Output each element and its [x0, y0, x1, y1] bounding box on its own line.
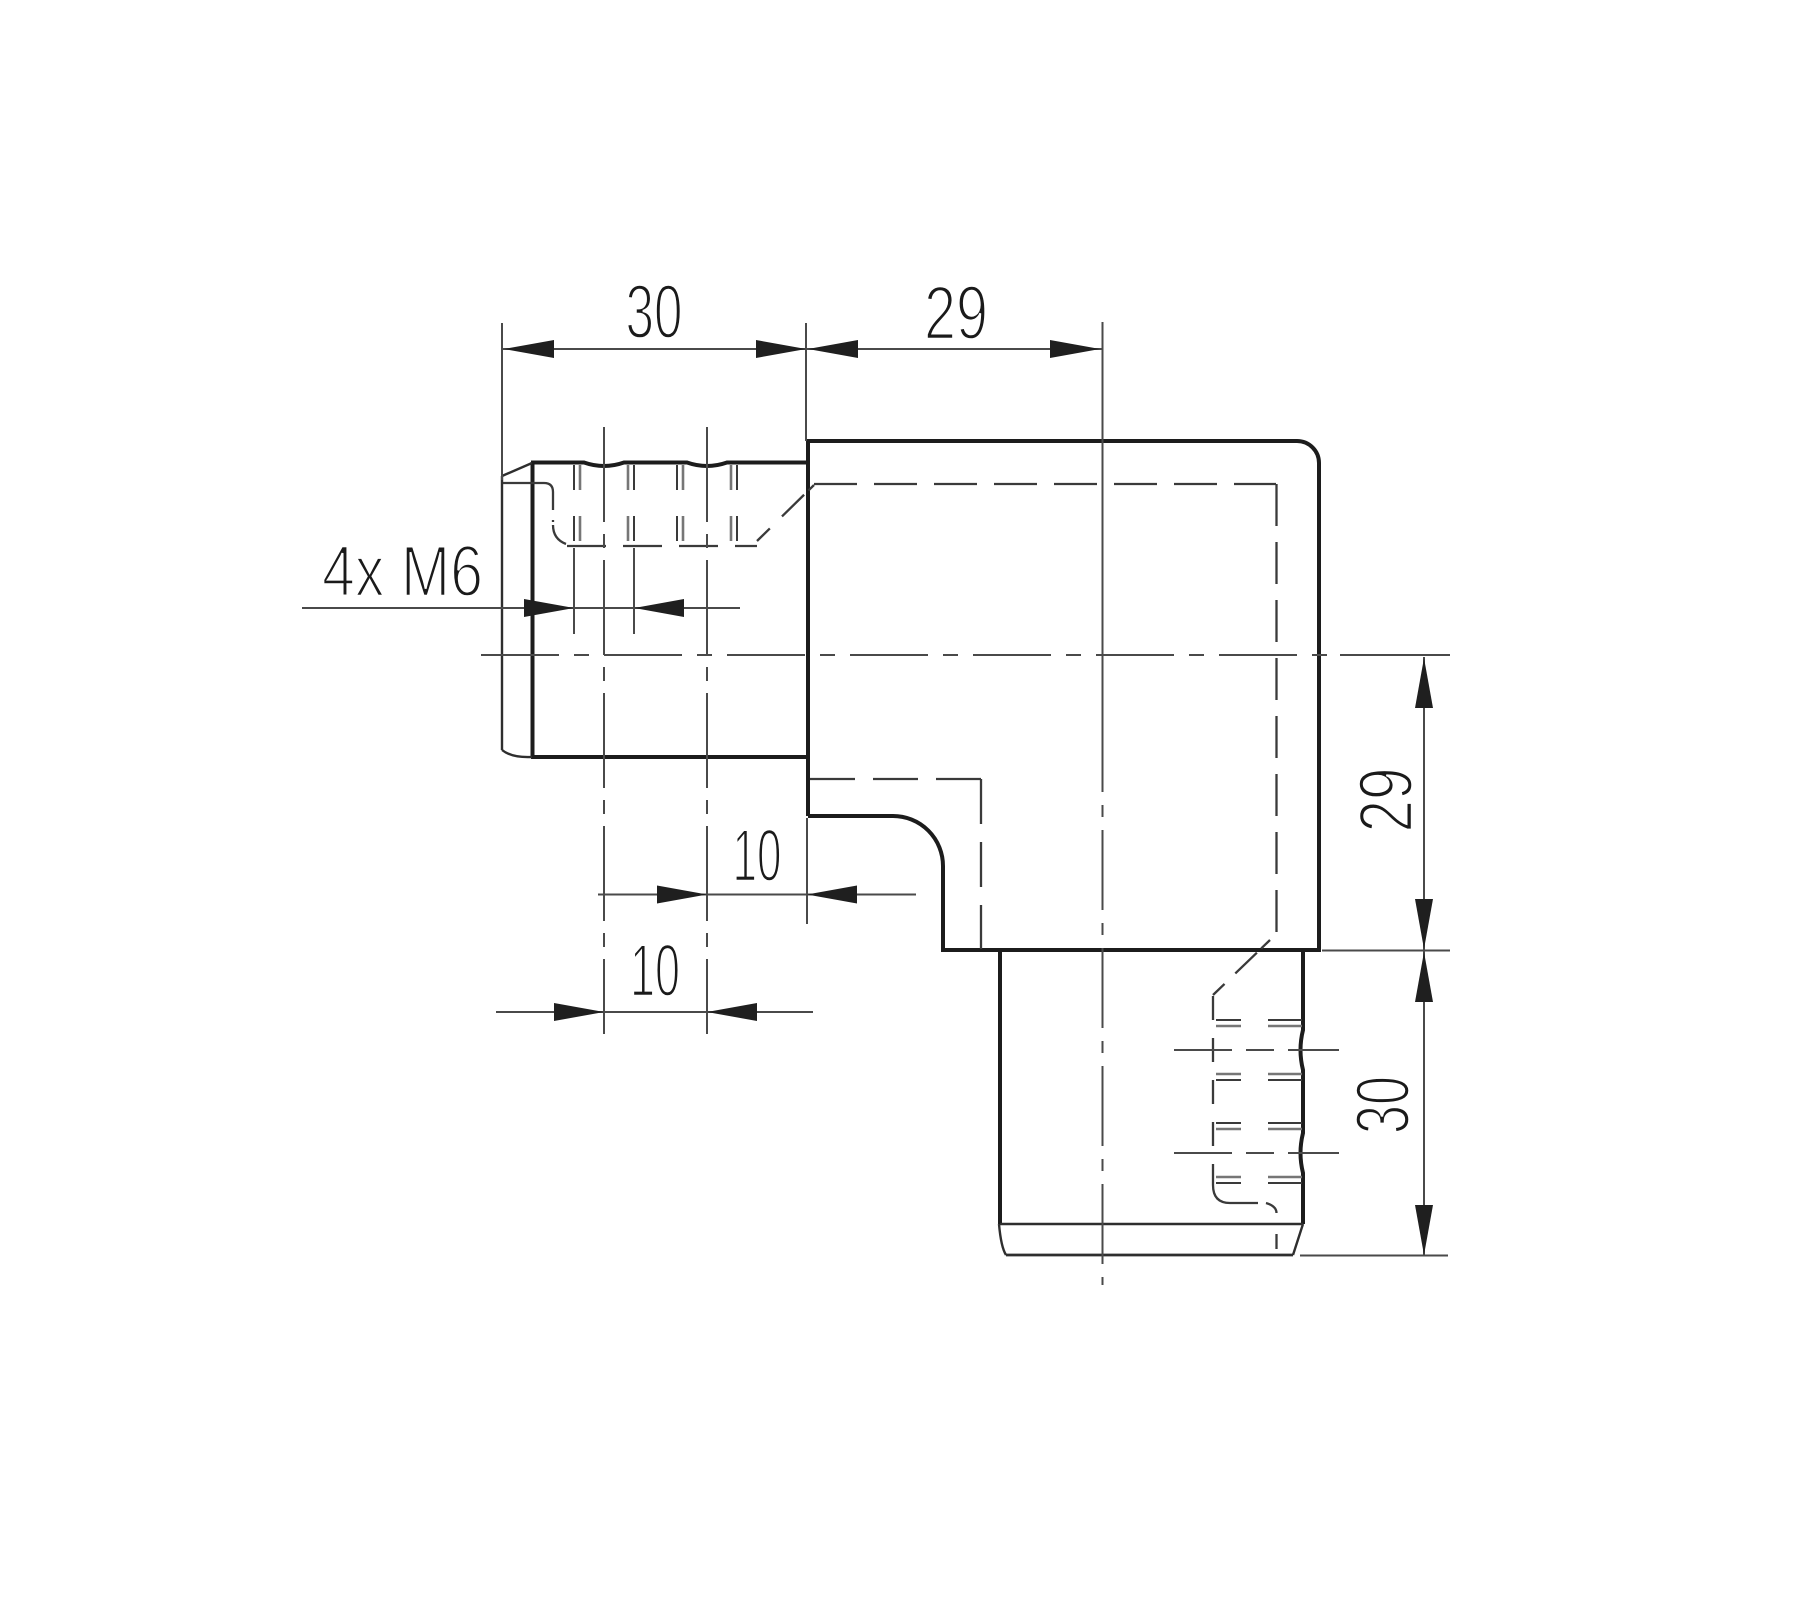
bottom plug right edge with countersink dips: [1301, 950, 1304, 1224]
M6 hole 1 centerline: [603, 427, 605, 1034]
dim 29 right arrows: [1415, 658, 1433, 708]
dim 10 lower arrows: [554, 1003, 604, 1021]
M6 hole 1 minor thread lines: [579, 465, 582, 541]
bottom plug left chamfer: [999, 1224, 1006, 1255]
extension line body left edge (x=806): [805, 323, 807, 441]
M6 hole 2 centerline: [706, 427, 708, 1034]
svg-text:30: 30: [626, 270, 683, 355]
M6 diameter extension line right: [633, 548, 635, 634]
left plug thread runout diagonal to body: [757, 485, 814, 541]
M6 hole 4 major thread lines: [1216, 1122, 1302, 1124]
hidden profile bore right line inside body: [1275, 484, 1277, 937]
hidden step line vertical: [980, 779, 982, 949]
extension line right at plug tip (y=1254): [1300, 1255, 1448, 1257]
left plug top chamfer: [502, 463, 532, 476]
hidden step line horizontal below left plug: [810, 778, 981, 780]
M6 hole 4 centerline: [1174, 1152, 1339, 1154]
corner connector body outline: [808, 441, 1319, 950]
dim 30 arrows: [504, 340, 554, 358]
dim 29 arrows: [808, 340, 858, 358]
M6 diameter arrows: [524, 599, 574, 617]
M6 diameter extension line left: [573, 548, 575, 634]
M6 hole 2 minor thread lines: [682, 465, 685, 541]
M6 hole 1 major thread lines: [573, 465, 575, 541]
left plug chamfered end face: [501, 476, 503, 750]
dimension line 29/30 right: [1423, 657, 1425, 1255]
extension line left (x=502): [501, 323, 503, 480]
dimension line 30/29 top: [502, 348, 1102, 350]
bottom plug thread runout hook: curve: [1213, 1185, 1230, 1203]
left plug bottom edge: [531, 755, 808, 759]
dim 10 upper arrows: [657, 886, 707, 904]
bottom plug thread runout hook: horizontal dashed: [1230, 1202, 1266, 1204]
left plug top edge with countersink dips: [531, 463, 808, 467]
M6 hole 3 major thread lines: [1216, 1019, 1302, 1021]
M6 hole 2 major thread lines: [676, 465, 678, 541]
M6 hole 3 centerline: [1174, 1049, 1339, 1051]
bottom plug thread runout diagonal to body: [1213, 940, 1270, 995]
extension line x=807 below body: [806, 818, 808, 924]
left plug inner shoulder edge: [531, 462, 535, 758]
left plug thread runout hook: bottom curve: [553, 525, 566, 544]
M6 hole 4 minor thread lines: [1216, 1128, 1302, 1131]
left plug thread runout hook: horizontal: [503, 483, 553, 492]
vertical profile centerline: [1102, 322, 1104, 712]
M6 leader line: [302, 607, 740, 609]
svg-text:10: 10: [733, 814, 782, 897]
svg-text:29: 29: [1344, 768, 1429, 833]
hidden profile bore top line inside body: [814, 483, 1276, 485]
bottom plug chamfer shoulder line: [1000, 1223, 1303, 1225]
horizontal profile centerline: [481, 654, 1345, 656]
bottom plug end face: [1006, 1254, 1293, 1257]
svg-text:4x M6: 4x M6: [322, 532, 483, 612]
bottom plug left edge: [998, 950, 1002, 1224]
bottom plug thread runout hook: down curve: [1266, 1203, 1277, 1213]
svg-text:10: 10: [630, 929, 680, 1012]
extension line right at body bottom (y=950.5): [1322, 950, 1450, 952]
dim 30 right arrows: [1415, 952, 1433, 1002]
bottom plug hidden thread-bottom line vertical: [1212, 996, 1214, 1185]
dim 10 upper: line: [598, 894, 916, 896]
left plug hidden thread-bottom line: [567, 545, 757, 547]
bottom plug right chamfer: [1293, 1224, 1303, 1255]
left plug thread runout hook: vertical dashed: [552, 492, 554, 522]
svg-text:30: 30: [1341, 1076, 1426, 1134]
bottom plug thread runout hook: vertical to tip: [1275, 1234, 1277, 1249]
svg-text:29: 29: [924, 271, 988, 356]
left plug bottom chamfer: [502, 750, 532, 757]
dim 10 lower: line: [496, 1011, 813, 1013]
M6 hole 3 minor thread lines: [1216, 1025, 1302, 1028]
